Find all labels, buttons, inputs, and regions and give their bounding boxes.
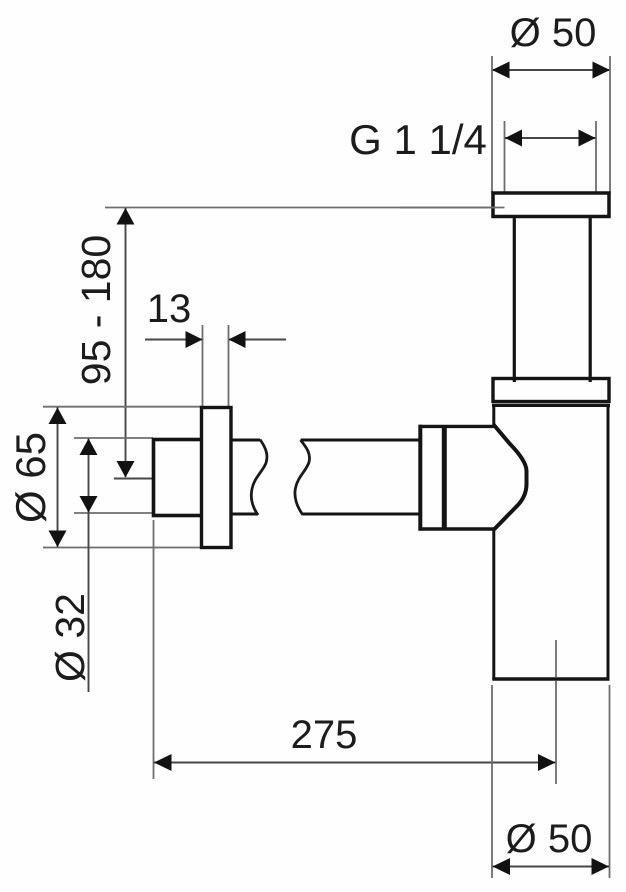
label Ø 32 (rotated) (47, 593, 93, 682)
label 275 (291, 713, 358, 757)
trap body: lower flange nut (493, 379, 609, 402)
top flange nut (493, 193, 609, 217)
dimension 95-180: vertical dimension line (125, 208, 127, 477)
trap inlet olive bulge (494, 425, 527, 530)
label Ø 65 (rotated) (7, 432, 54, 523)
dimension Ø32: extension lines (74, 438, 153, 513)
dimension Ø65: dimension line (57, 407, 59, 547)
trap body: bottom edge (492, 677, 609, 681)
trap inlet nut: inner vertical line (442, 426, 447, 529)
dimension 95-180: top extension line (105, 207, 505, 209)
pipe break squiggle right (295, 440, 310, 515)
dimension 95-180: bottom extension line (114, 478, 153, 480)
wall pipe: segment between escutcheon and break (231, 440, 260, 514)
wall pipe: segment between break and trap nut (301, 440, 421, 514)
dimension 275: arrowheads (154, 754, 556, 771)
label 95 - 180 (rotated) (73, 235, 119, 385)
trap body: right edge (607, 407, 610, 679)
dimension Ø50 top: dimension line (493, 69, 609, 71)
dimension Ø50 bottom: dimension line (493, 866, 610, 868)
dimension Ø32: dimension/leader line (88, 439, 90, 693)
wall socket nut (154, 440, 203, 516)
svg-text:13: 13 (147, 287, 192, 331)
wall escutcheon flange (202, 408, 232, 548)
pipe break squiggle left (251, 440, 267, 516)
dimension 13: extension lines (203, 325, 229, 407)
dimension Ø50 bottom: extension lines (492, 685, 610, 878)
dimension Ø65: arrowheads (49, 408, 67, 548)
dimension Ø50 top: extension lines (492, 56, 610, 193)
svg-text:Ø 65: Ø 65 (7, 432, 54, 523)
top pipe (vertical tube) (514, 212, 590, 382)
svg-text:Ø 32: Ø 32 (47, 593, 93, 682)
label 13 (147, 287, 192, 331)
trap body: left edge upper segment (492, 407, 495, 425)
svg-text:Ø 50: Ø 50 (510, 11, 597, 55)
trap inlet nut: bottom edge (419, 527, 496, 530)
dimension 95-180 top extension overlay into flange (400, 207, 505, 209)
svg-text:275: 275 (291, 713, 358, 757)
dimension Ø65: extension lines (43, 407, 201, 548)
svg-text:G 1 1/4: G 1 1/4 (349, 116, 487, 163)
dimension G1 1/4: arrowheads (505, 130, 596, 147)
label Ø50 bottom (506, 817, 593, 861)
dimension 275: left extension line (153, 520, 155, 779)
svg-text:95 - 180: 95 - 180 (73, 235, 119, 385)
dimension 95-180: arrowheads (117, 208, 135, 478)
dimension G1 1/4: extension lines (505, 121, 597, 192)
trap body: joint line under flange (492, 404, 610, 408)
dimension 275: right extension line (555, 640, 557, 784)
dimension 13: arrowheads (186, 331, 246, 348)
dimension Ø32: arrowheads (80, 439, 98, 513)
dimension Ø50 top: arrowheads (492, 62, 610, 79)
trap body: left edge lower segment (492, 529, 495, 679)
dimension Ø50 bottom: arrowheads (493, 858, 610, 875)
svg-text:Ø 50: Ø 50 (506, 817, 593, 861)
dimension 13: tail lines (145, 339, 286, 341)
dimension G1 1/4: dimension line (505, 137, 596, 139)
label G 1 1/4 (349, 116, 487, 163)
dimension 275: dimension line (154, 762, 556, 764)
trap inlet nut: top edge (419, 425, 495, 428)
trap inlet nut: left edge (418, 425, 422, 531)
trap body: cup fill (495, 407, 607, 678)
label Ø50 top (510, 11, 597, 55)
